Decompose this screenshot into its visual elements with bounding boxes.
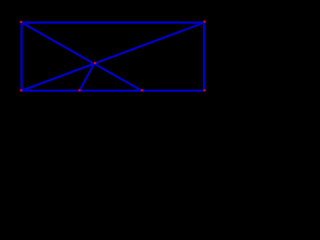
point D2 on bottom edge <box>141 89 144 92</box>
point BL <box>20 89 23 92</box>
geometry figure: rectangle with diagonal, cevian and point segments <box>0 0 228 116</box>
rectangle edge left <box>21 23 23 91</box>
rectangle edge bottom <box>22 90 204 92</box>
cevian TL-D2 <box>22 23 142 91</box>
rectangle edge right <box>203 23 205 91</box>
point BR <box>203 89 206 92</box>
point TR <box>203 20 206 23</box>
point TL <box>20 21 23 24</box>
segment P-D1 <box>80 64 95 91</box>
point D1 on bottom edge <box>78 89 81 92</box>
rectangle edge top <box>22 22 204 24</box>
point P (intersection) <box>94 62 97 65</box>
diagonal BL-TR <box>22 23 204 91</box>
